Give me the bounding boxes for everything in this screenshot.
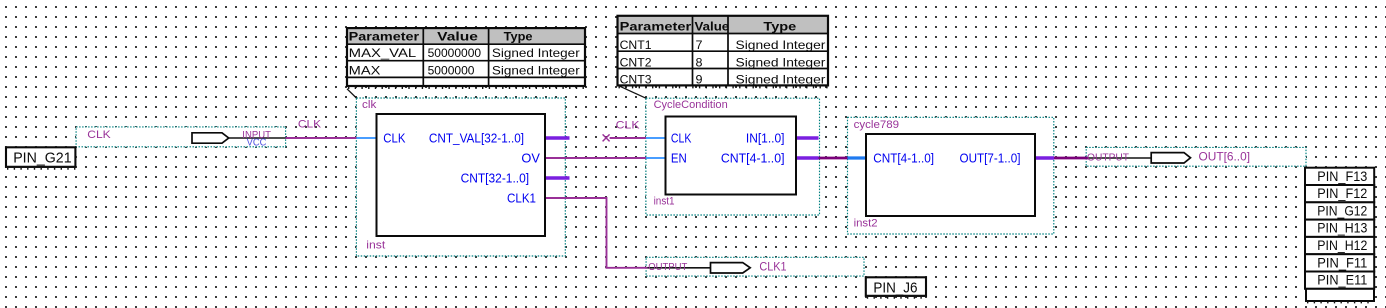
svg-text:Signed Integer: Signed Integer [492,46,580,60]
svg-text:VCC: VCC [247,137,267,148]
svg-text:PIN_F12: PIN_F12 [1317,185,1367,201]
svg-text:Signed Integer: Signed Integer [736,56,826,70]
svg-text:inst2: inst2 [854,217,878,229]
svg-text:CNT2: CNT2 [620,56,652,70]
svg-text:cycle789: cycle789 [854,119,900,131]
svg-text:50000000: 50000000 [428,46,482,60]
svg-text:CNT_VAL[32-1..0]: CNT_VAL[32-1..0] [429,130,524,145]
svg-text:PIN_J6: PIN_J6 [873,279,917,296]
svg-text:PIN_H12: PIN_H12 [1317,237,1367,253]
svg-text:CLK: CLK [616,120,641,132]
svg-text:inst: inst [366,239,385,251]
svg-text:Signed Integer: Signed Integer [736,38,826,52]
svg-text:Parameter: Parameter [620,19,692,33]
svg-text:OV: OV [521,150,540,165]
svg-text:PIN_E11: PIN_E11 [1317,272,1367,288]
svg-text:OUT[6..0]: OUT[6..0] [1199,150,1251,164]
svg-text:Parameter: Parameter [349,29,420,43]
svg-text:Type: Type [763,19,796,33]
svg-text:OUTPUT: OUTPUT [648,262,687,273]
svg-text:Value: Value [695,19,730,33]
svg-text:7: 7 [696,38,703,52]
svg-text:Value: Value [437,29,478,43]
svg-text:PIN_G21: PIN_G21 [13,150,71,167]
svg-text:CNT3: CNT3 [620,73,652,87]
svg-text:CLK1: CLK1 [759,260,786,274]
svg-text:CNT[4-1..0]: CNT[4-1..0] [873,150,934,165]
svg-text:CLK: CLK [87,129,111,141]
svg-text:PIN_F11: PIN_F11 [1317,254,1367,270]
svg-text:CLK: CLK [298,118,322,130]
svg-text:PIN_F13: PIN_F13 [1317,168,1367,184]
svg-text:8: 8 [696,56,703,70]
svg-text:Type: Type [504,29,533,43]
svg-text:CNT[32-1..0]: CNT[32-1..0] [461,170,529,185]
svg-text:CycleCondition: CycleCondition [654,99,728,111]
svg-text:clk: clk [362,99,377,111]
svg-text:CLK1: CLK1 [507,190,536,205]
svg-text:5000000: 5000000 [428,64,475,78]
svg-text:IN[1..0]: IN[1..0] [746,130,785,145]
svg-text:CLK: CLK [671,130,692,145]
svg-text:EN: EN [671,150,687,165]
svg-text:PIN_H13: PIN_H13 [1317,220,1367,236]
svg-text:OUTPUT: OUTPUT [1087,152,1129,163]
svg-text:CLK: CLK [383,130,405,145]
svg-text:9: 9 [696,73,703,87]
svg-text:MAX: MAX [349,64,381,78]
svg-text:Signed Integer: Signed Integer [736,73,826,87]
svg-text:CNT1: CNT1 [620,38,652,52]
svg-text:PIN_G12: PIN_G12 [1317,202,1367,218]
svg-text:inst1: inst1 [654,196,675,208]
svg-text:MAX_VAL: MAX_VAL [349,46,417,60]
svg-text:CNT[4-1..0]: CNT[4-1..0] [721,150,785,165]
svg-text:OUT[7-1..0]: OUT[7-1..0] [960,150,1021,165]
svg-text:Signed Integer: Signed Integer [492,64,580,78]
